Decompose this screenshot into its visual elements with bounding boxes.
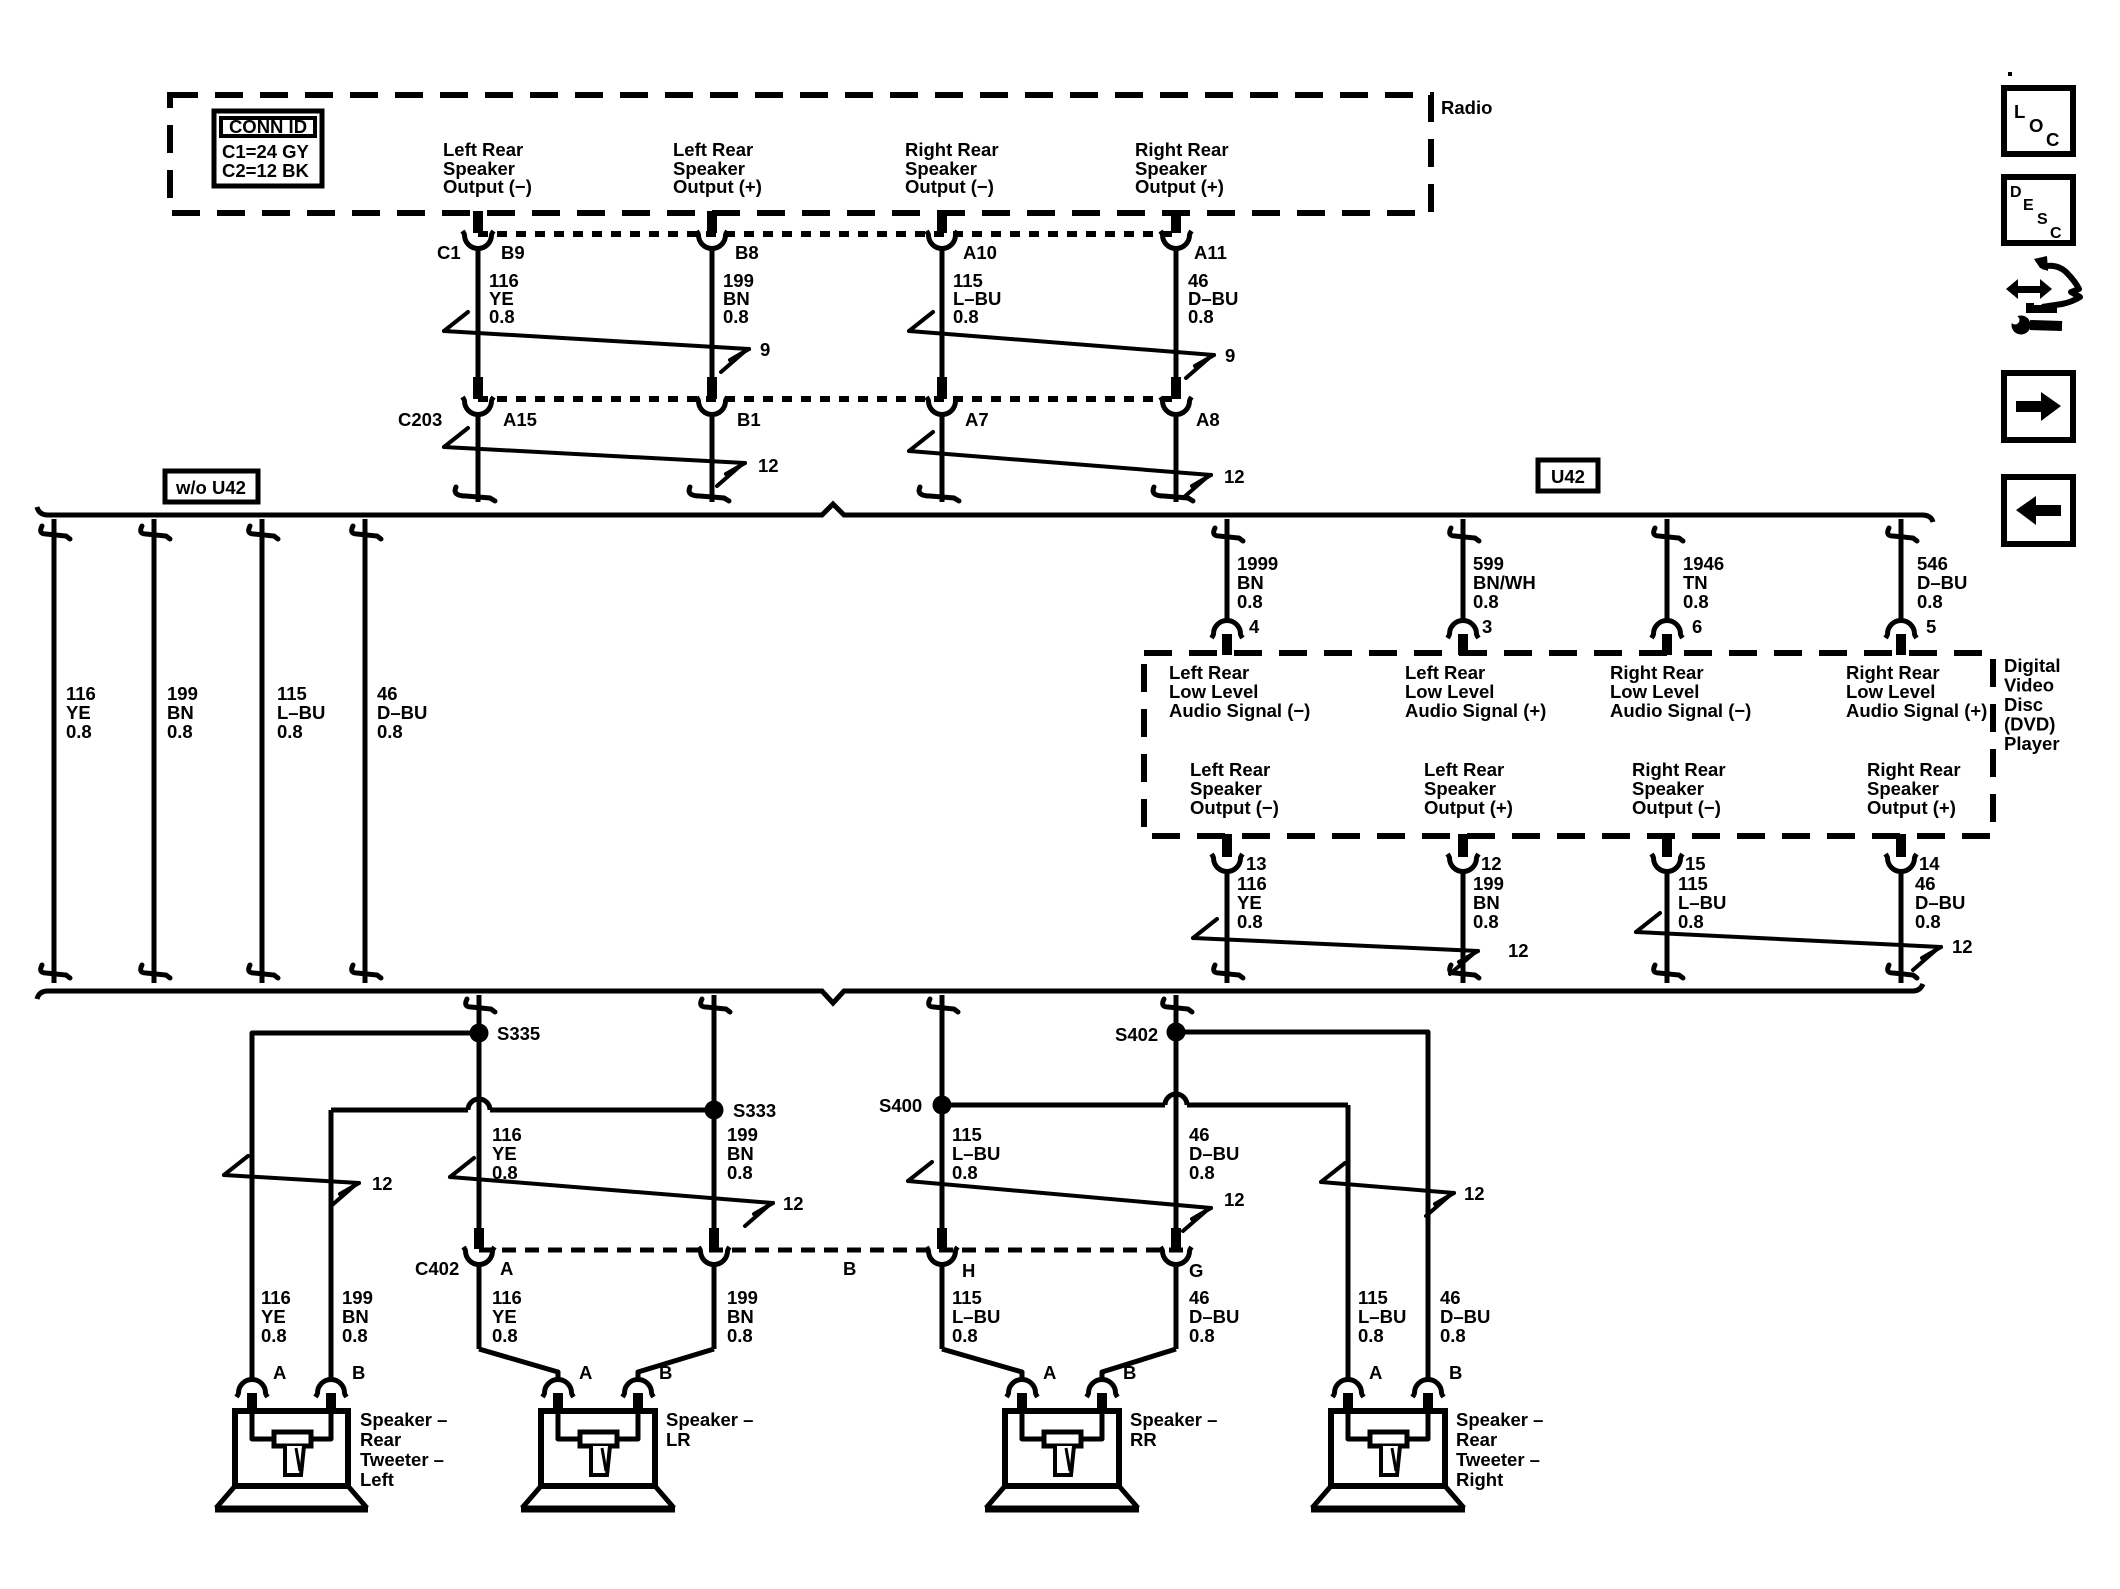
svg-text:Audio Signal (−): Audio Signal (−) [1169,700,1310,721]
svg-text:D–BU: D–BU [1917,572,1967,593]
svg-text:199: 199 [727,1124,758,1145]
svg-text:Right Rear: Right Rear [1610,662,1704,683]
svg-text:12: 12 [758,455,779,476]
svg-text:A11: A11 [1194,242,1227,263]
svg-text:O: O [2029,115,2043,136]
svg-text:0.8: 0.8 [952,1162,978,1183]
svg-text:46: 46 [377,683,398,704]
svg-text:YE: YE [492,1306,517,1327]
svg-text:0.8: 0.8 [1678,911,1704,932]
svg-text:12: 12 [1224,1189,1245,1210]
svg-text:BN: BN [342,1306,369,1327]
svg-text:46: 46 [1440,1287,1461,1308]
svg-text:0.8: 0.8 [1358,1325,1384,1346]
svg-text:199: 199 [167,683,198,704]
svg-text:B: B [659,1362,672,1383]
svg-text:0.8: 0.8 [1189,1162,1215,1183]
svg-text:12: 12 [1481,853,1502,874]
svg-text:C2=12 BK: C2=12 BK [222,160,310,181]
svg-text:A: A [579,1362,592,1383]
svg-text:1999: 1999 [1237,553,1278,574]
svg-text:D: D [2010,184,2022,201]
svg-text:Player: Player [2004,733,2060,754]
svg-text:BN/WH: BN/WH [1473,572,1536,593]
svg-text:Right Rear: Right Rear [1135,139,1229,160]
svg-text:Tweeter –: Tweeter – [1456,1449,1540,1470]
svg-text:Speaker –: Speaker – [1456,1409,1543,1430]
svg-text:0.8: 0.8 [66,721,92,742]
svg-text:Left: Left [360,1469,394,1490]
svg-text:Output (−): Output (−) [443,176,532,197]
svg-text:E: E [2023,197,2034,214]
svg-text:0.8: 0.8 [261,1325,287,1346]
svg-text:D–BU: D–BU [1189,1143,1239,1164]
svg-text:L–BU: L–BU [1358,1306,1406,1327]
svg-text:115: 115 [277,683,307,704]
svg-text:199: 199 [1473,873,1504,894]
svg-text:BN: BN [727,1306,754,1327]
svg-text:46: 46 [1189,1287,1210,1308]
svg-text:0.8: 0.8 [953,306,979,327]
svg-text:Output (+): Output (+) [1135,176,1224,197]
svg-text:BN: BN [727,1143,754,1164]
svg-text:C: C [2050,225,2062,242]
svg-text:12: 12 [1464,1183,1485,1204]
svg-text:Output (−): Output (−) [905,176,994,197]
svg-text:Output (+): Output (+) [673,176,762,197]
svg-text:Speaker –: Speaker – [360,1409,447,1430]
svg-text:Rear: Rear [360,1429,401,1450]
svg-text:Left Rear: Left Rear [673,139,753,160]
svg-text:A: A [1369,1362,1382,1383]
svg-text:Output (−): Output (−) [1632,797,1721,818]
svg-text:0.8: 0.8 [342,1325,368,1346]
svg-text:U42: U42 [1551,466,1585,487]
svg-text:A15: A15 [503,409,537,430]
svg-text:Digital: Digital [2004,655,2061,676]
svg-text:Radio: Radio [1441,97,1492,118]
svg-text:12: 12 [783,1193,804,1214]
svg-text:116: 116 [66,683,96,704]
svg-text:BN: BN [1473,892,1500,913]
svg-text:B: B [1449,1362,1462,1383]
svg-text:0.8: 0.8 [1473,911,1499,932]
svg-text:L: L [2014,101,2025,122]
svg-text:12: 12 [1508,940,1529,961]
svg-text:0.8: 0.8 [492,1325,518,1346]
svg-text:0.8: 0.8 [1188,306,1214,327]
svg-text:Low Level: Low Level [1169,681,1258,702]
svg-text:Right Rear: Right Rear [1867,759,1961,780]
svg-text:0.8: 0.8 [277,721,303,742]
svg-text:Left Rear: Left Rear [1405,662,1485,683]
svg-text:15: 15 [1685,853,1706,874]
svg-text:115: 115 [1678,873,1708,894]
svg-text:B9: B9 [501,242,525,263]
svg-text:599: 599 [1473,553,1504,574]
svg-text:Speaker –: Speaker – [666,1409,753,1430]
svg-text:5: 5 [1926,616,1936,637]
svg-text:Audio Signal (−): Audio Signal (−) [1610,700,1751,721]
svg-text:A: A [1043,1362,1056,1383]
svg-text:116: 116 [1237,873,1267,894]
svg-text:B: B [352,1362,365,1383]
svg-text:A7: A7 [965,409,989,430]
svg-text:116: 116 [492,1287,522,1308]
svg-text:546: 546 [1917,553,1948,574]
svg-text:0.8: 0.8 [1917,591,1943,612]
svg-text:Left Rear: Left Rear [1424,759,1504,780]
svg-text:46: 46 [1915,873,1936,894]
svg-text:YE: YE [66,702,91,723]
svg-text:0.8: 0.8 [489,306,515,327]
svg-text:RR: RR [1130,1429,1157,1450]
svg-text:L–BU: L–BU [952,1306,1000,1327]
svg-text:Rear: Rear [1456,1429,1497,1450]
svg-text:Output (+): Output (+) [1424,797,1513,818]
svg-text:S: S [2037,211,2048,228]
svg-text:G: G [1189,1260,1203,1281]
svg-text:S335: S335 [497,1023,540,1044]
svg-text:46: 46 [1189,1124,1210,1145]
svg-text:D–BU: D–BU [1440,1306,1490,1327]
svg-text:0.8: 0.8 [1237,911,1263,932]
svg-text:B8: B8 [735,242,759,263]
svg-text:12: 12 [1224,466,1245,487]
svg-text:12: 12 [372,1173,393,1194]
svg-text:0.8: 0.8 [727,1162,753,1183]
svg-text:Tweeter –: Tweeter – [360,1449,444,1470]
svg-text:199: 199 [727,1287,758,1308]
svg-text:0.8: 0.8 [1683,591,1709,612]
svg-text:Speaker: Speaker [1190,778,1262,799]
svg-text:S400: S400 [879,1095,922,1116]
svg-text:S333: S333 [733,1100,776,1121]
svg-text:Speaker: Speaker [1632,778,1704,799]
svg-text:L–BU: L–BU [277,702,325,723]
svg-text:B: B [843,1258,856,1279]
svg-text:(DVD): (DVD) [2004,714,2055,735]
svg-text:0.8: 0.8 [1440,1325,1466,1346]
svg-text:Right Rear: Right Rear [905,139,999,160]
svg-text:0.8: 0.8 [723,306,749,327]
svg-text:L–BU: L–BU [1678,892,1726,913]
svg-text:Low Level: Low Level [1846,681,1935,702]
svg-text:H: H [962,1260,975,1281]
svg-text:Left Rear: Left Rear [1190,759,1270,780]
svg-text:116: 116 [261,1287,291,1308]
svg-text:Speaker –: Speaker – [1130,1409,1217,1430]
svg-text:D–BU: D–BU [1915,892,1965,913]
svg-text:Right: Right [1456,1469,1503,1490]
svg-text:0.8: 0.8 [1237,591,1263,612]
svg-text:Speaker: Speaker [1867,778,1939,799]
svg-text:9: 9 [1225,345,1235,366]
svg-text:13: 13 [1246,853,1267,874]
svg-text:0.8: 0.8 [167,721,193,742]
svg-text:D–BU: D–BU [1189,1306,1239,1327]
svg-text:L–BU: L–BU [952,1143,1000,1164]
svg-text:Audio Signal (+): Audio Signal (+) [1846,700,1987,721]
svg-text:Disc: Disc [2004,694,2043,715]
svg-text:0.8: 0.8 [1473,591,1499,612]
svg-text:BN: BN [1237,572,1264,593]
svg-text:TN: TN [1683,572,1708,593]
svg-text:0.8: 0.8 [952,1325,978,1346]
svg-text:C1=24 GY: C1=24 GY [222,141,310,162]
svg-text:YE: YE [261,1306,286,1327]
svg-text:Audio Signal (+): Audio Signal (+) [1405,700,1546,721]
svg-text:D–BU: D–BU [377,702,427,723]
svg-text:C1: C1 [437,242,461,263]
svg-text:YE: YE [1237,892,1262,913]
svg-text:S402: S402 [1115,1024,1158,1045]
svg-text:A: A [273,1362,286,1383]
svg-text:A10: A10 [963,242,997,263]
svg-text:115: 115 [952,1287,982,1308]
svg-text:Output (+): Output (+) [1867,797,1956,818]
svg-text:0.8: 0.8 [492,1162,518,1183]
svg-text:Video: Video [2004,675,2054,696]
svg-text:C: C [2046,129,2059,150]
svg-text:115: 115 [952,1124,982,1145]
svg-text:Right Rear: Right Rear [1632,759,1726,780]
svg-text:4: 4 [1249,616,1260,637]
svg-text:Left Rear: Left Rear [443,139,523,160]
svg-text:199: 199 [342,1287,373,1308]
svg-text:1946: 1946 [1683,553,1724,574]
svg-text:A: A [500,1258,513,1279]
svg-text:115: 115 [1358,1287,1388,1308]
svg-text:14: 14 [1919,853,1940,874]
svg-text:6: 6 [1692,616,1702,637]
svg-text:9: 9 [760,339,770,360]
svg-text:CONN ID: CONN ID [229,116,307,137]
svg-text:0.8: 0.8 [1915,911,1941,932]
svg-text:BN: BN [167,702,194,723]
svg-text:LR: LR [666,1429,691,1450]
svg-text:116: 116 [492,1124,522,1145]
svg-text:12: 12 [1952,936,1973,957]
svg-text:YE: YE [492,1143,517,1164]
svg-text:0.8: 0.8 [727,1325,753,1346]
svg-text:B: B [1123,1362,1136,1383]
svg-text:C402: C402 [415,1258,459,1279]
svg-text:0.8: 0.8 [1189,1325,1215,1346]
svg-text:0.8: 0.8 [377,721,403,742]
svg-text:Output (−): Output (−) [1190,797,1279,818]
svg-text:C203: C203 [398,409,442,430]
svg-text:Low Level: Low Level [1610,681,1699,702]
svg-text:w/o U42: w/o U42 [175,477,246,498]
svg-text:3: 3 [1482,616,1492,637]
svg-text:Low Level: Low Level [1405,681,1494,702]
svg-text:Speaker: Speaker [1424,778,1496,799]
svg-text:Left Rear: Left Rear [1169,662,1249,683]
svg-text:A8: A8 [1196,409,1220,430]
svg-text:B1: B1 [737,409,761,430]
svg-text:Right Rear: Right Rear [1846,662,1940,683]
